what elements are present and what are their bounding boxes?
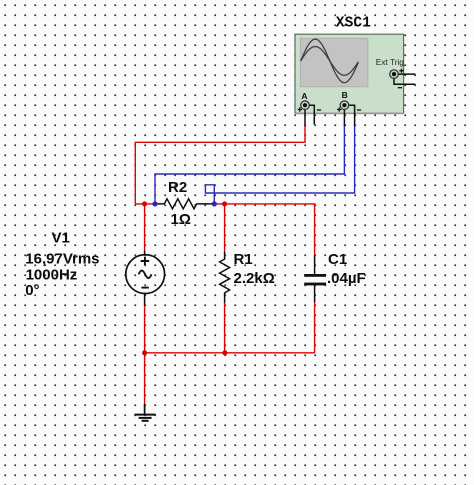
svg-text:C1: C1 bbox=[328, 251, 347, 268]
svg-text:1Ω: 1Ω bbox=[171, 211, 191, 228]
svg-text:16,97Vrms: 16,97Vrms bbox=[25, 251, 99, 268]
svg-text:R2: R2 bbox=[168, 179, 187, 196]
svg-text:R1: R1 bbox=[234, 251, 253, 268]
svg-text:.04µF: .04µF bbox=[327, 270, 366, 287]
svg-text:B: B bbox=[342, 90, 348, 100]
svg-text:XSC1: XSC1 bbox=[336, 15, 371, 31]
svg-text:0°: 0° bbox=[25, 282, 39, 299]
svg-text:Ext Trig: Ext Trig bbox=[376, 57, 405, 67]
svg-text:A: A bbox=[301, 91, 307, 101]
svg-text:2.2kΩ: 2.2kΩ bbox=[234, 270, 275, 287]
svg-text:V1: V1 bbox=[52, 230, 70, 247]
